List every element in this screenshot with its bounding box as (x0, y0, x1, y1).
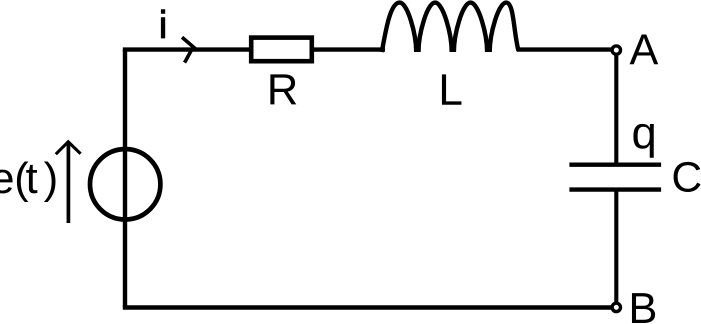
inductor L (4 humps) (382, 3, 519, 52)
wire: node A down to capacitor (614, 54, 618, 165)
resistor R (251, 38, 312, 62)
node A (open terminal) (612, 46, 620, 54)
wire: resistor to inductor (314, 47, 385, 51)
label q (633, 124, 653, 158)
voltage source circle (90, 149, 160, 219)
node B (open terminal) (612, 303, 620, 311)
wire: top-left segment from corner to resistor (123, 47, 252, 51)
current arrow i (open chevron on top wire) (182, 37, 197, 62)
capacitor C bottom plate (569, 187, 661, 191)
label C (674, 162, 701, 192)
label e(t) (0, 161, 55, 202)
label i (161, 9, 165, 38)
wire: left vertical (through source) (123, 50, 127, 308)
label A (630, 34, 659, 64)
label R (270, 74, 296, 104)
label L (442, 74, 462, 104)
wire: inductor to node A (517, 47, 611, 51)
wire: capacitor down to node B (614, 190, 618, 304)
wire: bottom segment (123, 305, 611, 309)
source polarity arrow (67, 143, 71, 223)
capacitor C top plate (569, 162, 661, 166)
label B (632, 293, 655, 323)
